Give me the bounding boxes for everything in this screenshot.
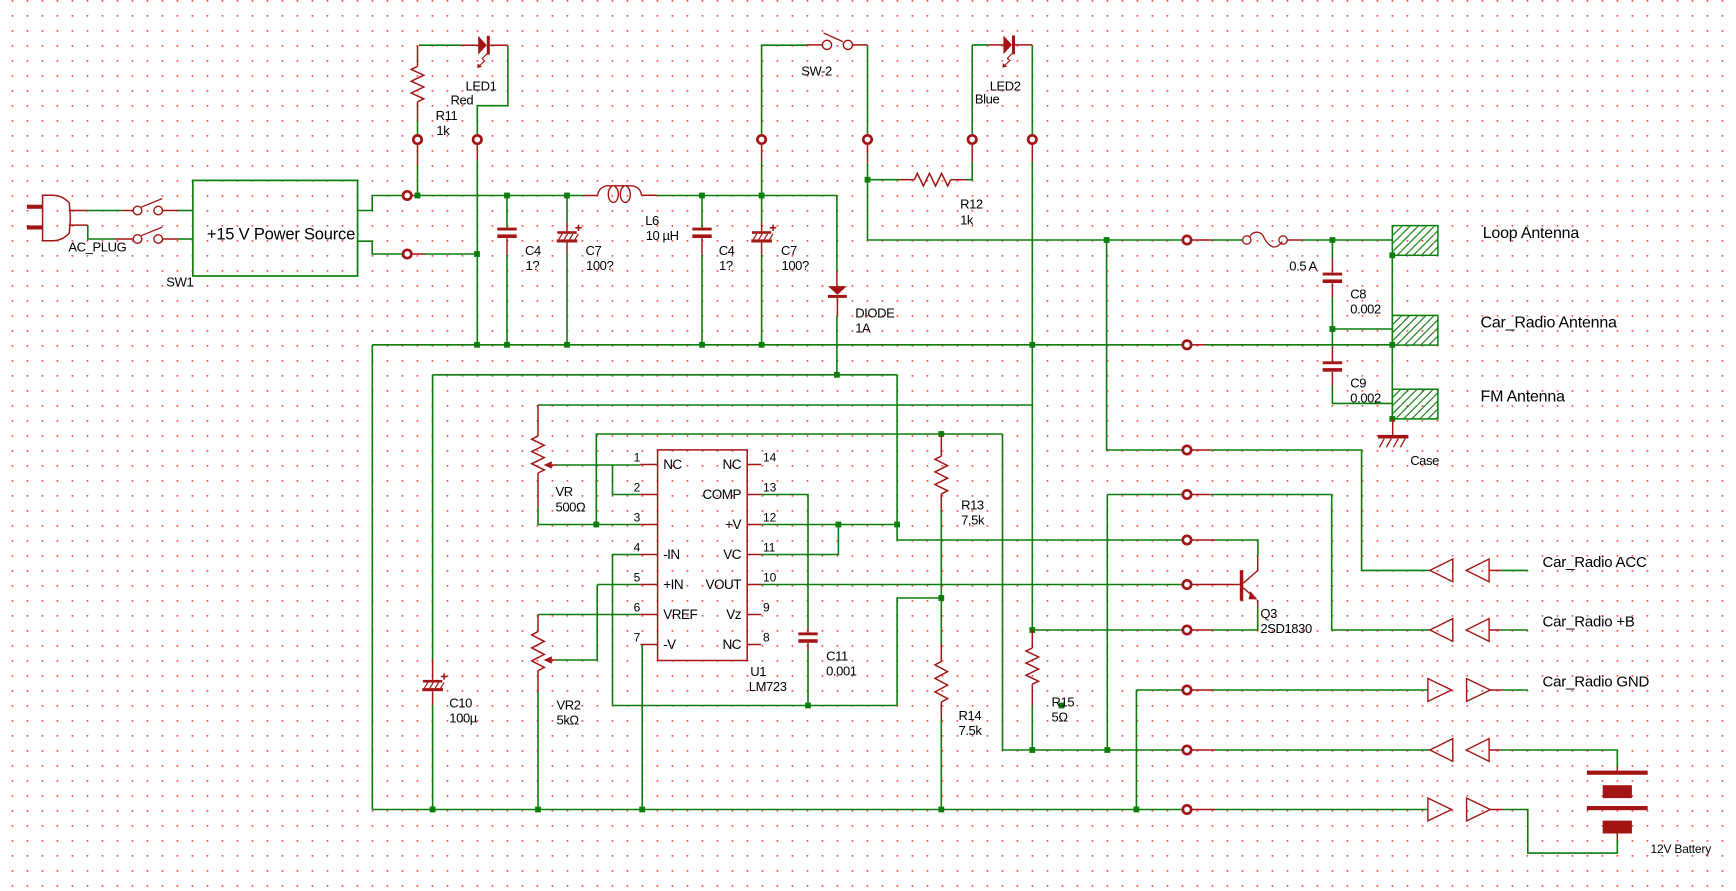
resistor R12 body xyxy=(914,173,950,186)
junction xyxy=(593,522,599,528)
pin circle R11 xyxy=(413,135,421,143)
wire R14 lead xyxy=(940,702,942,719)
potentiometer VR wiper xyxy=(544,461,552,469)
wire to rail2 xyxy=(506,255,508,345)
connector Car_Radio +B xyxy=(1430,619,1453,642)
svg-text:10: 10 xyxy=(763,571,777,585)
wire stub xyxy=(1192,629,1212,631)
svg-text:NC: NC xyxy=(723,457,742,472)
AC plug AC_PLUG xyxy=(27,195,70,241)
svg-text:10 µH: 10 µH xyxy=(646,228,679,243)
pin 2 stub xyxy=(640,494,657,496)
wire stub xyxy=(1192,539,1215,541)
wire xyxy=(761,162,763,196)
svg-text:NC: NC xyxy=(723,637,742,652)
junction xyxy=(894,522,900,528)
svg-text:7,5k: 7,5k xyxy=(961,513,985,528)
capacitor C9 plates xyxy=(1323,361,1342,364)
junction xyxy=(759,193,765,199)
junction xyxy=(564,193,570,199)
svg-text:R13: R13 xyxy=(961,498,984,513)
wire xyxy=(1303,239,1333,241)
junction xyxy=(474,342,480,348)
wire to Q3 collector xyxy=(1215,540,1258,556)
wire +V drop xyxy=(896,375,898,525)
wire xyxy=(1215,749,1430,751)
junction xyxy=(1104,747,1110,753)
svg-text:3: 3 xyxy=(634,511,641,525)
wire ACC row xyxy=(1107,240,1182,450)
svg-text:Q3: Q3 xyxy=(1260,606,1277,621)
svg-text:C9: C9 xyxy=(1350,376,1366,391)
wire base lead xyxy=(1192,584,1239,586)
switch SW1 pole A xyxy=(133,206,142,215)
junction xyxy=(415,193,421,199)
junction xyxy=(564,342,570,348)
potentiometer VR2 wiper xyxy=(544,656,552,664)
wire antenna commons xyxy=(1391,255,1393,419)
wire lead xyxy=(506,238,508,255)
resistor R11 xyxy=(411,66,424,101)
wire xyxy=(1031,705,1033,750)
svg-text:LED1: LED1 xyxy=(466,79,497,94)
wire LED1 net down to rail xyxy=(476,160,478,345)
svg-text:FM Antenna: FM Antenna xyxy=(1481,389,1566,406)
svg-text:Car_Radio Antenna: Car_Radio Antenna xyxy=(1481,315,1618,332)
wire R15 lead xyxy=(1031,630,1033,648)
wire to rail2 xyxy=(761,255,763,345)
svg-text:1?: 1? xyxy=(719,258,733,273)
wire +V xyxy=(761,524,897,526)
wire xyxy=(1331,297,1333,329)
svg-text:AC_PLUG: AC_PLUG xyxy=(68,240,126,255)
svg-text:1A: 1A xyxy=(855,321,871,336)
svg-text:SW-2: SW-2 xyxy=(801,64,832,79)
svg-text:C11: C11 xyxy=(826,649,848,664)
svg-text:-IN: -IN xyxy=(663,547,680,562)
wire to rail2 xyxy=(566,255,568,345)
pin 7 stub xyxy=(640,644,657,646)
wire -IN/C11 node xyxy=(613,705,898,707)
wire to bottom rail xyxy=(432,705,434,810)
wire to LED1 net xyxy=(425,253,477,255)
wire xyxy=(807,650,809,706)
wire C11 lead xyxy=(807,643,809,650)
junction xyxy=(430,807,436,813)
svg-text:6: 6 xyxy=(634,601,641,615)
wire VREF to VR2 xyxy=(538,614,640,616)
wire stub xyxy=(1192,344,1205,346)
pin circle +B xyxy=(1183,490,1191,498)
svg-text:500Ω: 500Ω xyxy=(556,500,586,515)
svg-text:VC: VC xyxy=(723,547,742,562)
wire xyxy=(417,121,419,135)
wire power source bottom output xyxy=(358,241,402,254)
junction xyxy=(805,703,811,709)
capacitor C7 plates xyxy=(557,231,576,234)
pin circle battery+ xyxy=(1183,746,1191,754)
wire R12 lead xyxy=(900,179,915,181)
wire xyxy=(940,719,942,810)
svg-text:5kΩ: 5kΩ xyxy=(557,713,580,728)
wire stub xyxy=(761,145,763,162)
svg-text:C7: C7 xyxy=(586,243,602,258)
wire xyxy=(940,598,942,644)
junction xyxy=(504,342,510,348)
wire +B row xyxy=(1107,494,1181,496)
svg-text:+V: +V xyxy=(725,517,741,532)
resistor R15 body xyxy=(1026,648,1039,684)
LED LED2 xyxy=(1002,36,1015,68)
junction xyxy=(938,595,944,601)
pin circle LED2 right xyxy=(1028,135,1036,143)
wire stub xyxy=(413,253,425,255)
svg-text:Car_Radio ACC: Car_Radio ACC xyxy=(1543,554,1647,571)
svg-text:DIODE: DIODE xyxy=(855,306,895,321)
wire stub xyxy=(1192,689,1212,691)
junction xyxy=(699,193,705,199)
svg-text:-V: -V xyxy=(663,637,676,652)
pin circle xyxy=(403,250,411,258)
wire wiper to +IN xyxy=(557,585,598,661)
pin 1 stub xyxy=(640,464,657,466)
wire lead xyxy=(1331,283,1333,297)
wire to battery - xyxy=(1503,810,1618,854)
wire to Car_Radio ACC xyxy=(1211,450,1430,570)
junction xyxy=(1029,342,1035,348)
svg-text:1k: 1k xyxy=(960,213,974,228)
wire emitter xyxy=(1212,607,1258,630)
svg-text:C8: C8 xyxy=(1350,287,1366,302)
pin circle collector xyxy=(1183,536,1191,544)
wire stub xyxy=(417,145,419,165)
wire stub xyxy=(1192,494,1210,496)
svg-text:0.001: 0.001 xyxy=(826,664,857,679)
junction xyxy=(834,372,840,378)
switch SW1 pole B xyxy=(133,235,142,244)
pin circle ACC xyxy=(1183,446,1191,454)
pin 14 stub xyxy=(747,464,761,466)
wire xyxy=(1215,809,1428,811)
junction xyxy=(1134,807,1140,813)
capacitor C9 xyxy=(1331,329,1333,347)
wire top line drop to battery row xyxy=(1003,434,1033,750)
wire xyxy=(1032,749,1107,751)
svg-text:VOUT: VOUT xyxy=(705,577,741,592)
wire diode cathode lead xyxy=(836,298,838,316)
svg-text:4: 4 xyxy=(634,541,641,555)
wire xyxy=(1107,749,1181,751)
transistor Q3 xyxy=(1240,556,1258,607)
wire antenna rail xyxy=(372,344,1181,346)
svg-text:0.002: 0.002 xyxy=(1350,391,1381,406)
svg-text:C4: C4 xyxy=(525,243,541,258)
wire stub xyxy=(867,145,869,163)
capacitor C8 xyxy=(1331,240,1333,258)
pin circle xyxy=(403,191,411,199)
ground Case xyxy=(1392,419,1394,435)
svg-text:Car_Radio +B: Car_Radio +B xyxy=(1543,614,1635,631)
capacitor C10 (polarized) xyxy=(423,680,442,683)
wire power source top output xyxy=(358,196,402,211)
svg-text:11: 11 xyxy=(763,541,776,555)
capacitor C11 xyxy=(798,632,817,635)
svg-text:+15 V Power Source: +15 V Power Source xyxy=(207,226,355,244)
pin 13 stub xyxy=(747,494,761,496)
wire SW-2 left leg xyxy=(762,45,807,134)
pin circle SW-2 left xyxy=(757,135,765,143)
pin 4 stub xyxy=(640,554,657,556)
inductor L6 xyxy=(584,195,598,197)
wire stub xyxy=(413,195,418,197)
battery 12V xyxy=(1587,771,1648,834)
op-amp U1 LM723 box xyxy=(658,450,748,661)
svg-text:Car_Radio GND: Car_Radio GND xyxy=(1543,674,1650,691)
svg-text:NC: NC xyxy=(663,457,682,472)
wire stub xyxy=(1192,809,1215,811)
svg-text:100?: 100? xyxy=(586,258,613,273)
wire C10 lead xyxy=(432,660,434,680)
wire stub xyxy=(1192,749,1215,751)
connector battery + xyxy=(1430,739,1453,762)
wire to rail2 xyxy=(701,255,703,345)
wire to Car_Radio +B xyxy=(1211,495,1430,631)
wire +IN xyxy=(597,584,640,586)
svg-text:Case: Case xyxy=(1410,453,1439,468)
wire to R13/R14 node xyxy=(897,598,941,706)
wire LED2 net down xyxy=(1031,162,1033,630)
pin 3 stub xyxy=(640,524,657,526)
wire plug to SW1 bottom xyxy=(69,224,88,226)
svg-text:7.5k: 7.5k xyxy=(959,723,983,738)
svg-text:9: 9 xyxy=(763,601,770,615)
svg-text:R12: R12 xyxy=(960,197,983,212)
junction xyxy=(1389,342,1395,348)
antenna FM Antenna xyxy=(1392,389,1438,419)
wire C11 lead xyxy=(807,628,809,633)
power source box +15 V Power Source xyxy=(193,180,358,276)
fuse 0.5 A xyxy=(1212,239,1242,241)
pin 8 stub xyxy=(747,644,761,646)
wire GND row xyxy=(1135,690,1137,810)
wire VC to +V xyxy=(761,525,838,555)
svg-text:L6: L6 xyxy=(645,213,659,228)
svg-text:1?: 1? xyxy=(526,258,540,273)
wire R15 lead xyxy=(1031,684,1033,705)
wire to top rail xyxy=(417,165,419,196)
wire VR2 bottom xyxy=(537,671,539,692)
wire pin2 xyxy=(613,465,641,495)
wire SW1 to power source xyxy=(163,210,178,212)
pin 12 stub xyxy=(747,524,761,526)
svg-text:+IN: +IN xyxy=(663,577,683,592)
wire LED1 cathode down xyxy=(490,44,508,46)
svg-text:2SD1830: 2SD1830 xyxy=(1260,621,1312,636)
connector battery - xyxy=(1428,798,1452,821)
svg-text:LM723: LM723 xyxy=(749,679,787,694)
svg-text:R14: R14 xyxy=(959,708,982,723)
resistor R14 body xyxy=(935,662,948,703)
junction xyxy=(1330,237,1336,243)
capacitor C8 plates xyxy=(1323,273,1342,276)
junction xyxy=(1059,703,1065,709)
connector Car_Radio ACC xyxy=(1430,559,1453,582)
wire to FM Antenna xyxy=(1332,386,1392,403)
wire stub xyxy=(971,145,973,162)
pin circle GND xyxy=(1183,686,1191,694)
svg-text:C4: C4 xyxy=(719,243,735,258)
capacitor C4b plates xyxy=(692,228,711,231)
wire stub xyxy=(476,145,478,160)
junction xyxy=(759,342,765,348)
wire stub LED1 anode xyxy=(462,44,479,46)
wire lead xyxy=(701,238,703,255)
wire VR top xyxy=(538,404,1032,406)
junction xyxy=(1330,326,1336,332)
antenna Loop Antenna xyxy=(1392,226,1438,256)
svg-text:C7: C7 xyxy=(781,243,797,258)
connector Car_Radio GND xyxy=(1428,679,1452,702)
svg-text:13: 13 xyxy=(763,481,777,495)
wire to Car_Radio Antenna xyxy=(1332,328,1392,330)
junction xyxy=(865,177,871,183)
capacitor C7b plates xyxy=(752,231,771,234)
pin circle base xyxy=(1183,580,1191,588)
svg-text:7: 7 xyxy=(634,631,641,645)
junction xyxy=(699,342,705,348)
wire pin4 -IN xyxy=(613,555,641,706)
capacitor C7 (first, polarized) xyxy=(566,196,568,223)
wire R13 lead xyxy=(940,494,942,510)
svg-text:U1: U1 xyxy=(750,664,766,679)
svg-text:VREF: VREF xyxy=(663,607,697,622)
wire R11 bottom lead xyxy=(417,102,419,121)
wire stub xyxy=(1192,239,1212,241)
svg-text:100µ: 100µ xyxy=(449,711,477,726)
pin circle bottom rail xyxy=(1183,805,1191,813)
svg-text:1: 1 xyxy=(634,451,641,465)
svg-text:100?: 100? xyxy=(782,258,809,273)
wire to battery xyxy=(1501,750,1618,767)
wire to Loop Antenna xyxy=(1332,239,1392,241)
switch SW-2 xyxy=(822,40,831,49)
svg-text:VR2: VR2 xyxy=(557,698,581,713)
pin circle fuse row xyxy=(1183,236,1191,244)
resistor R13 xyxy=(940,436,942,457)
pin 9 stub xyxy=(747,614,761,616)
svg-text:8: 8 xyxy=(763,631,770,645)
diode DIODE xyxy=(828,286,847,295)
svg-text:0.5 A: 0.5 A xyxy=(1289,259,1317,274)
wire bottom rail xyxy=(372,809,1181,811)
wire LED2 anode xyxy=(971,46,973,134)
wire to -V node xyxy=(836,316,838,375)
pin 5 stub xyxy=(640,584,657,586)
svg-text:5: 5 xyxy=(634,571,641,585)
pin circle LED2 left xyxy=(968,135,976,143)
capacitor C4 (first) xyxy=(506,196,508,228)
svg-text:R11: R11 xyxy=(436,108,458,123)
potentiometer VR2 body xyxy=(532,632,545,671)
svg-text:5Ω: 5Ω xyxy=(1052,710,1069,725)
pin 10 stub xyxy=(747,584,761,586)
pin circle antenna rail xyxy=(1183,341,1191,349)
wire R15 top row xyxy=(1032,629,1181,631)
pin 11 stub xyxy=(747,554,761,556)
junction xyxy=(938,431,944,437)
wire xyxy=(1136,689,1181,691)
pin circle emitter xyxy=(1183,626,1191,634)
wire left drop to bottom rail xyxy=(371,345,373,810)
svg-text:12: 12 xyxy=(763,511,777,525)
wire stub xyxy=(1031,145,1033,162)
pin circle LED1 xyxy=(473,135,481,143)
wire top line from pin3 node xyxy=(596,434,1002,525)
svg-text:Blue: Blue xyxy=(975,92,1000,107)
junction xyxy=(474,251,480,257)
junction xyxy=(1029,627,1035,633)
wire to Car_Radio Antenna xyxy=(1205,344,1392,346)
junction xyxy=(938,807,944,813)
resistor R12 xyxy=(868,179,900,181)
svg-text:2: 2 xyxy=(634,481,641,495)
wire VOUT row xyxy=(761,584,1181,586)
svg-text:SW1: SW1 xyxy=(166,275,193,290)
wire C10 lead xyxy=(432,691,434,705)
wire plug to SW1 top xyxy=(69,210,87,212)
capacitor C7 (second, polarized) xyxy=(761,196,763,223)
wire VR bottom to pin3 xyxy=(537,473,539,507)
wire rail to diode xyxy=(836,196,838,272)
svg-text:12V Battery: 12V Battery xyxy=(1651,842,1712,856)
wire VR2 top lead xyxy=(537,615,539,632)
wire LED2 cathode xyxy=(1015,44,1032,46)
wire wiper to pin1 xyxy=(557,464,641,466)
wire lead xyxy=(1331,372,1333,386)
wire to fuse row xyxy=(868,180,1107,240)
wire stub xyxy=(1287,239,1302,241)
wire R12 lead xyxy=(951,179,966,181)
svg-text:VR: VR xyxy=(556,484,573,499)
resistor R13 body xyxy=(935,456,948,494)
wire +B drop xyxy=(1106,495,1108,751)
wire lead xyxy=(761,243,763,255)
wire xyxy=(940,510,942,598)
wire lead xyxy=(566,243,568,255)
wire to Car_Radio GND xyxy=(1212,689,1428,691)
svg-text:Vz: Vz xyxy=(726,607,742,622)
wire main +15V rail xyxy=(418,195,584,197)
capacitor C4 plates xyxy=(497,228,516,231)
svg-text:COMP: COMP xyxy=(703,487,742,502)
wire stub xyxy=(1192,449,1210,451)
junction xyxy=(836,522,842,528)
pin 6 stub xyxy=(640,614,657,616)
wire SW-2 right leg xyxy=(853,44,868,46)
wire COMP to C11 xyxy=(761,495,808,628)
LED LED1 xyxy=(477,36,490,68)
junction xyxy=(535,807,541,813)
svg-text:0.002: 0.002 xyxy=(1350,302,1381,317)
wire R11 top xyxy=(417,45,419,66)
svg-text:Red: Red xyxy=(451,93,474,108)
junction xyxy=(1389,252,1395,258)
junction xyxy=(1104,237,1110,243)
junction xyxy=(1389,416,1395,422)
svg-text:Loop Antenna: Loop Antenna xyxy=(1483,225,1580,242)
antenna Car_Radio Antenna xyxy=(1392,315,1438,345)
capacitor C4 (second) xyxy=(701,196,703,228)
